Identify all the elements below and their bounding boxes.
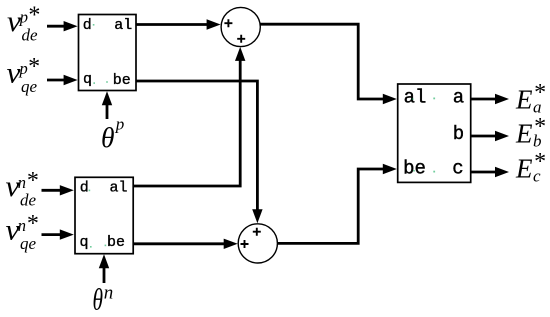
svg-text:E: E bbox=[515, 119, 533, 149]
svg-text:d: d bbox=[83, 17, 92, 34]
svg-text:qe: qe bbox=[20, 234, 37, 253]
svg-text:be: be bbox=[403, 158, 426, 180]
svg-text:b: b bbox=[453, 123, 464, 145]
svg-text:θ: θ bbox=[93, 282, 104, 317]
svg-text:al: al bbox=[404, 86, 427, 108]
svg-text:*: * bbox=[533, 114, 545, 140]
svg-text:a: a bbox=[453, 86, 464, 108]
svg-text:al: al bbox=[114, 17, 132, 34]
svg-text:E: E bbox=[515, 154, 533, 184]
svg-text:θ: θ bbox=[101, 123, 115, 154]
svg-text:de: de bbox=[22, 26, 39, 45]
svg-text:q: q bbox=[79, 234, 88, 251]
svg-text:q: q bbox=[83, 71, 92, 88]
svg-text:p: p bbox=[115, 115, 125, 134]
svg-text:be: be bbox=[113, 72, 131, 89]
svg-text:E: E bbox=[515, 85, 533, 115]
svg-text:be: be bbox=[107, 234, 125, 251]
svg-text:d: d bbox=[80, 179, 89, 196]
svg-text:al: al bbox=[109, 179, 127, 196]
svg-text:n: n bbox=[104, 283, 114, 304]
svg-text:qe: qe bbox=[21, 77, 38, 96]
svg-text:c: c bbox=[452, 158, 463, 180]
svg-text:*: * bbox=[533, 80, 545, 106]
svg-text:*: * bbox=[533, 149, 545, 175]
svg-text:de: de bbox=[20, 191, 37, 210]
